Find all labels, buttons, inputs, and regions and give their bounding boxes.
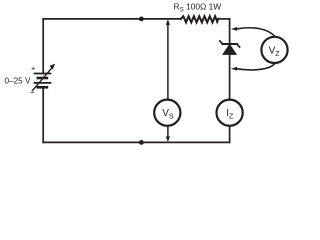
ammeter IZ [217,100,243,126]
wire top from left corner to resistor [43,18,181,20]
voltmeter VZ [261,37,287,63]
voltmeter VS probe arrow up [166,19,170,98]
wire left bottom segment [42,87,44,142]
plus sign [31,66,35,73]
svg-text:0–25 V: 0–25 V [5,76,31,85]
wire top from resistor to top-right corner [218,18,229,20]
node junction top [139,17,144,22]
label RS 100ohm 1W [174,2,222,14]
voltmeter VS probe arrow down [166,127,170,142]
wire bottom [43,141,229,143]
resistor RS [181,16,218,22]
battery source 0-25V variable [33,64,56,91]
label 0-25 V [5,76,31,85]
node junction bottom [139,140,144,145]
wire from zener to ammeter IZ [229,54,231,98]
voltmeter VZ probe arc bottom [231,64,275,71]
voltmeter VS [154,100,180,126]
wire left top segment [42,19,44,74]
svg-text:+: + [31,66,35,73]
wire from ammeter to bottom wire [229,127,231,143]
minus sign [30,90,34,97]
svg-text:−: − [30,90,34,97]
voltmeter VZ probe arc top [231,27,275,36]
zener diode D1 [220,41,240,54]
wire right branch down to zener [229,19,231,44]
